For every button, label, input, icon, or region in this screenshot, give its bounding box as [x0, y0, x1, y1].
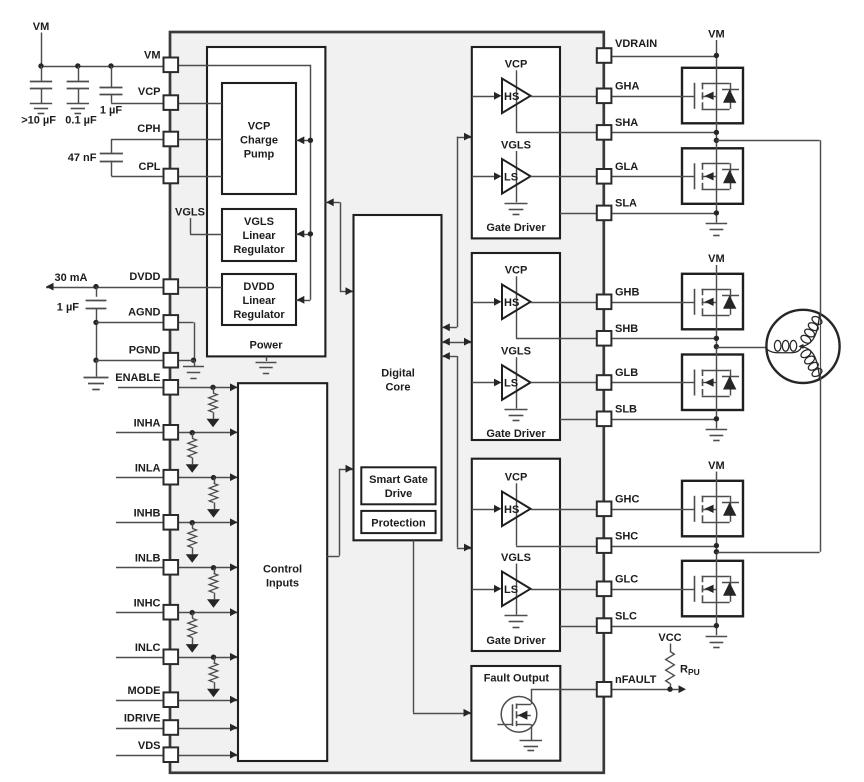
- svg-text:VCC: VCC: [658, 632, 681, 644]
- svg-text:1 µF: 1 µF: [100, 105, 123, 117]
- svg-text:SLA: SLA: [615, 198, 637, 210]
- svg-text:VDS: VDS: [138, 740, 161, 752]
- svg-text:SLC: SLC: [615, 610, 637, 622]
- svg-text:INLB: INLB: [135, 553, 161, 565]
- svg-text:Inputs: Inputs: [266, 578, 299, 590]
- svg-text:CPH: CPH: [137, 123, 160, 135]
- svg-text:DVDD: DVDD: [243, 281, 274, 293]
- svg-text:INHA: INHA: [134, 418, 161, 430]
- svg-text:>10 µF: >10 µF: [21, 115, 56, 127]
- svg-text:Gate Driver: Gate Driver: [486, 635, 546, 647]
- svg-text:DVDD: DVDD: [129, 271, 160, 283]
- svg-text:INLA: INLA: [135, 462, 161, 474]
- svg-text:SHB: SHB: [615, 323, 638, 335]
- svg-text:GLB: GLB: [615, 367, 638, 379]
- svg-text:nFAULT: nFAULT: [615, 674, 657, 686]
- svg-text:LS: LS: [504, 172, 518, 184]
- svg-text:Pump: Pump: [244, 149, 275, 161]
- svg-text:VGLS: VGLS: [175, 207, 205, 219]
- svg-text:Smart Gate: Smart Gate: [369, 474, 428, 486]
- svg-text:Digital: Digital: [381, 368, 415, 380]
- svg-text:SHA: SHA: [615, 117, 638, 129]
- svg-text:Gate Driver: Gate Driver: [486, 428, 546, 440]
- svg-text:VCP: VCP: [505, 265, 528, 277]
- svg-text:CPL: CPL: [139, 161, 161, 173]
- svg-text:HS: HS: [504, 91, 519, 103]
- svg-text:LS: LS: [504, 378, 518, 390]
- svg-text:Drive: Drive: [385, 488, 413, 500]
- svg-text:GHB: GHB: [615, 287, 640, 299]
- svg-text:GHC: GHC: [615, 494, 640, 506]
- svg-text:GLC: GLC: [615, 574, 638, 586]
- svg-text:VGLS: VGLS: [501, 140, 531, 152]
- svg-text:INHC: INHC: [134, 597, 161, 609]
- svg-text:Linear: Linear: [242, 230, 276, 242]
- svg-text:VGLS: VGLS: [244, 216, 274, 228]
- svg-text:Charge: Charge: [240, 135, 278, 147]
- svg-text:0.1 µF: 0.1 µF: [65, 115, 97, 127]
- svg-text:IDRIVE: IDRIVE: [124, 713, 161, 725]
- svg-text:INHB: INHB: [134, 508, 161, 520]
- svg-text:VM: VM: [708, 28, 725, 40]
- svg-text:VCP: VCP: [505, 59, 528, 71]
- svg-text:VM: VM: [144, 49, 161, 61]
- svg-text:Linear: Linear: [242, 295, 276, 307]
- svg-text:HS: HS: [504, 297, 519, 309]
- svg-text:Control: Control: [263, 564, 302, 576]
- svg-text:Protection: Protection: [371, 518, 426, 530]
- svg-text:SLB: SLB: [615, 404, 637, 416]
- svg-text:Core: Core: [385, 382, 410, 394]
- svg-text:GLA: GLA: [615, 161, 638, 173]
- svg-text:VM: VM: [708, 253, 725, 265]
- svg-text:VCP: VCP: [505, 472, 528, 484]
- svg-text:VM: VM: [33, 21, 50, 33]
- svg-text:47 nF: 47 nF: [68, 152, 97, 164]
- svg-text:30 mA: 30 mA: [54, 272, 87, 284]
- svg-text:LS: LS: [504, 584, 518, 596]
- svg-text:PGND: PGND: [129, 345, 161, 357]
- svg-text:Fault Output: Fault Output: [484, 673, 550, 685]
- svg-text:INLC: INLC: [135, 642, 161, 654]
- svg-text:Gate Driver: Gate Driver: [486, 222, 546, 234]
- svg-text:MODE: MODE: [128, 685, 161, 697]
- svg-text:GHA: GHA: [615, 81, 640, 93]
- svg-text:Regulator: Regulator: [233, 309, 285, 321]
- svg-text:Power: Power: [249, 340, 283, 352]
- svg-text:ENABLE: ENABLE: [115, 372, 160, 384]
- svg-text:VCP: VCP: [248, 121, 271, 133]
- svg-text:VM: VM: [708, 460, 725, 472]
- svg-text:VGLS: VGLS: [501, 346, 531, 358]
- svg-text:VCP: VCP: [138, 86, 161, 98]
- svg-text:SHC: SHC: [615, 530, 638, 542]
- svg-text:VDRAIN: VDRAIN: [615, 38, 657, 50]
- svg-text:VGLS: VGLS: [501, 552, 531, 564]
- svg-text:Regulator: Regulator: [233, 244, 285, 256]
- svg-text:HS: HS: [504, 504, 519, 516]
- svg-text:1 µF: 1 µF: [57, 302, 80, 314]
- svg-text:AGND: AGND: [128, 306, 160, 318]
